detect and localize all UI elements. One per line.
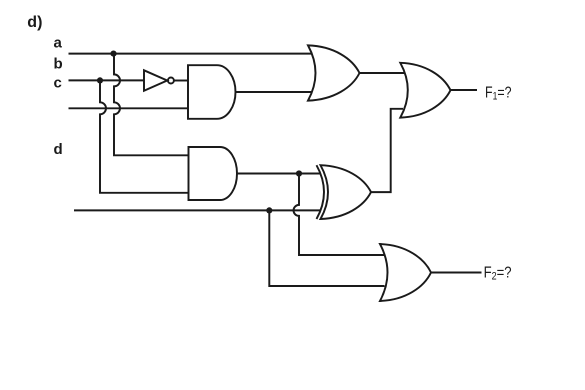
wire input a horizontal (69, 53, 312, 55)
wire drop from XOR input node with hop over d line (294, 174, 385, 256)
svg-text:d): d) (27, 14, 42, 31)
svg-text:F2=?: F2=? (484, 265, 512, 283)
OR gate 1 (308, 45, 360, 100)
wire AND1 output to OR1 (236, 91, 313, 93)
svg-text:d: d (54, 141, 63, 158)
wire drop from d line to F2 lower input (269, 210, 384, 286)
AND gate 2 (189, 147, 238, 200)
AND gate 1 (188, 65, 235, 119)
wire drop from node a with hops (114, 54, 189, 156)
junction node on line d (266, 207, 272, 213)
wire input d horizontal (74, 209, 321, 211)
wire OR1 output to F1 gate (360, 72, 406, 74)
svg-text:b: b (54, 56, 63, 73)
junction node on AND2 output (296, 170, 302, 176)
wire XOR output up to F1 lower input (371, 109, 403, 192)
XOR gate body (321, 165, 372, 219)
junction node on line a (110, 51, 116, 57)
OR gate F2 (380, 244, 431, 301)
wire input c horizontal (69, 79, 145, 81)
junction node on line c (97, 77, 103, 83)
OR gate F1 (400, 63, 450, 118)
inverter NOT gate (144, 70, 174, 91)
wire inverter output to AND1 (174, 80, 188, 82)
wire drop from node c with hop (100, 80, 189, 192)
wire F1 output (451, 89, 478, 91)
wire AND2 output to XOR (237, 173, 321, 175)
wire input 3 horizontal (69, 107, 189, 109)
XOR gate input arc (317, 165, 325, 219)
svg-text:a: a (54, 34, 63, 51)
svg-text:c: c (54, 75, 62, 92)
svg-text:F1=?: F1=? (485, 85, 512, 103)
wire F2 output (431, 272, 482, 274)
